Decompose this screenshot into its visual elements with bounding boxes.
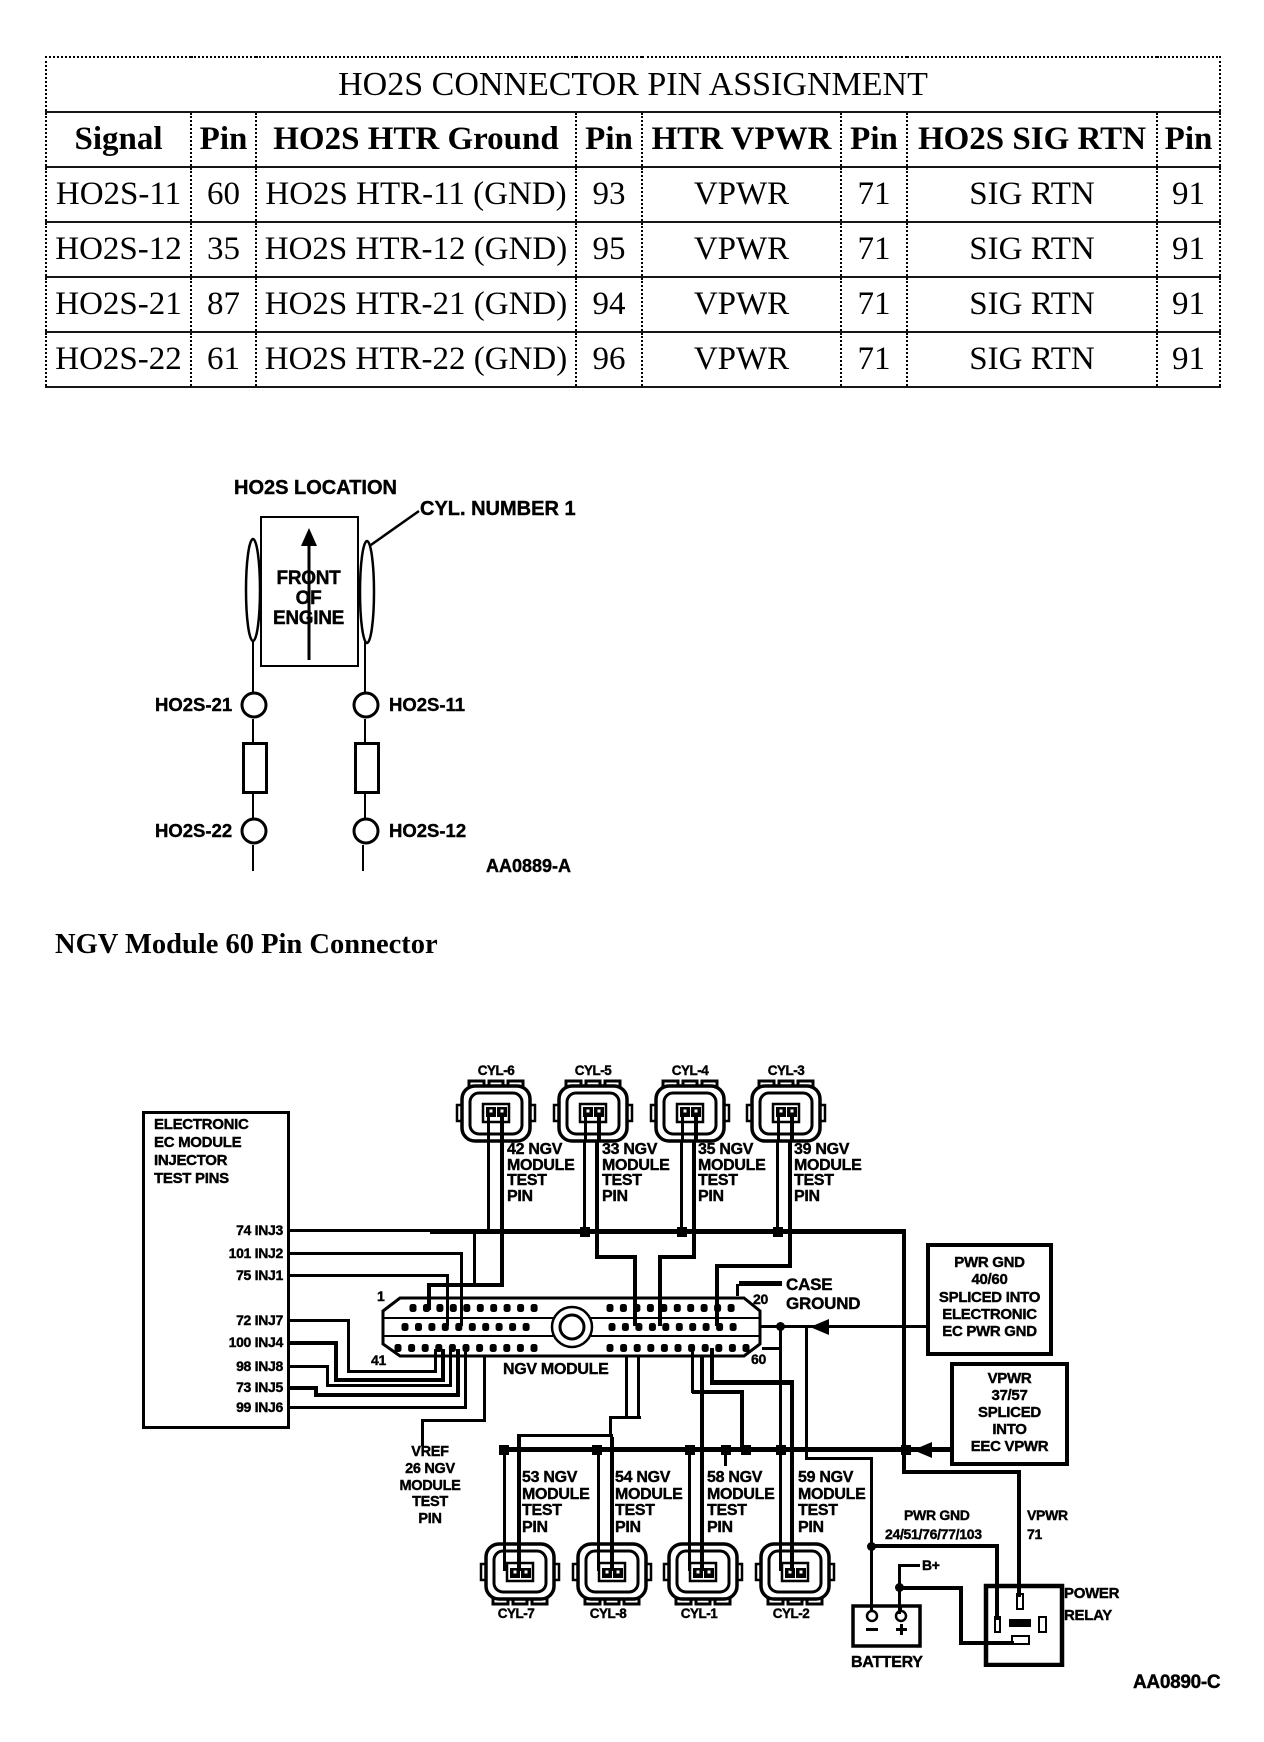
bottom connector CYL-7 [478,1541,562,1607]
wire INJ2 [290,1252,462,1255]
wire HO2S-22 tail [252,845,254,871]
pin label 100 INJ4 [153,1335,283,1351]
pin label 73 INJ5 [153,1380,283,1396]
connector CYL-7 label [481,1606,551,1622]
VPWR bus [502,1447,950,1452]
wire vpwr to relay [902,1470,1021,1474]
wire CYL-7 left pin [503,1452,506,1545]
wire B+ [898,1564,920,1567]
test pin label 39 [794,1142,862,1204]
connector CYL-8 label [573,1606,643,1622]
connector CYL-4 label [655,1063,725,1079]
junction dot node A [776,1322,785,1331]
pin label 74 INJ3 [153,1223,283,1239]
stub below bus [724,1450,727,1466]
wire CYL-1 test pin [700,1356,704,1545]
wire CYL-3 right pin [788,1142,792,1268]
wire INJ3 drop to module [473,1231,476,1287]
wire CYL-4 right pin [692,1142,696,1259]
wire CYL-3 left pin [776,1142,779,1232]
bus junction B1 [499,1445,509,1455]
arrow into VPWR box [913,1442,933,1458]
injector connector CYL-4 [648,1078,732,1144]
pin label 72 INJ7 [153,1313,283,1329]
wire CYL-5 left pin [583,1142,586,1232]
wire INJ5 [290,1386,318,1390]
wire INJ8 [290,1365,329,1368]
junction B+ [895,1583,904,1592]
connector body left [242,742,268,794]
wire CYL-6 left pin [487,1142,490,1233]
connector CYL-6 label [461,1063,531,1079]
junction J2 [677,1227,687,1237]
arrow into module (pwr gnd) [810,1319,830,1335]
junction J3 [773,1227,783,1237]
bus junction B3 [685,1445,695,1455]
wire 40/60 junction down [779,1331,782,1450]
EC module box U1 [142,1111,290,1429]
wire CYL-2 test pin [790,1380,794,1545]
wire pwr gnd from module middle row [805,1327,808,1460]
power relay label [1064,1583,1119,1627]
test pin label 42 [507,1142,575,1204]
VPWR 71 label [1027,1506,1068,1544]
battery label [851,1655,923,1671]
wire module pin to CYL-2 jog [710,1348,714,1384]
label 20 [753,1292,768,1308]
wire VREF [421,1419,424,1446]
engine box [260,516,359,667]
sensor HO2S-11 [351,690,381,720]
power relay K1 [981,1581,1065,1667]
bus junction B6 [776,1445,786,1455]
wire gnd to relay [870,1544,999,1548]
pin label 101 INJ2 [153,1246,283,1262]
test pin label 35 [698,1142,766,1204]
junction battery gnd [867,1542,876,1551]
wire HO2S-21 to connector body [252,719,254,743]
wire CYL-6 right pin [500,1142,504,1287]
right sensor oval [357,538,377,646]
wire VPWR drop [902,1229,906,1474]
connector CYL-3 label [751,1063,821,1079]
test pin label 58 [707,1470,775,1536]
pin 60 jog [779,1327,782,1350]
wire CYL-8 test pin [610,1437,614,1545]
B+ label [922,1558,940,1574]
wire INJ6 [290,1406,467,1409]
wire CYL-7 test pin [517,1434,521,1545]
bus junction B2 [592,1445,602,1455]
bus junction B7 [901,1445,911,1455]
injector connector CYL-5 [551,1078,635,1144]
sensor HO2S-22 [239,816,269,846]
wire CYL-2 left pin [779,1452,782,1545]
injector connector CYL-6 [454,1078,538,1144]
wire right bank to HO2S-11 [364,641,366,692]
wire CYL-4 left pin [680,1142,683,1232]
bus junction B4 [721,1445,731,1455]
connector CYL-5 label [558,1063,628,1079]
wire CYL-1 left pin [688,1452,691,1545]
wire CYL-8 left pin [597,1452,600,1545]
NGV module 60-pin connector body [375,1286,775,1370]
wire INJ3 bus horizontal [290,1229,504,1232]
pwr gnd label [904,1508,970,1524]
test pin label 54 [615,1470,683,1536]
label 41 [371,1353,386,1369]
test pin label 53 [522,1470,590,1536]
connector CYL-2 label [756,1606,826,1622]
test pin label 33 [602,1142,670,1204]
wire CYL-5 right pin [595,1142,599,1259]
bottom connector CYL-1 [661,1541,745,1607]
label 60 [751,1352,766,1368]
wire INJ4 [290,1341,338,1345]
cyl number 1 pointer [366,509,422,549]
bottom connector CYL-8 [570,1541,654,1607]
sensor HO2S-12 [351,816,381,846]
pin label 98 INJ8 [153,1359,283,1375]
case ground stub [739,1281,782,1286]
figure number [1133,1675,1220,1691]
wire battery+ to relay [898,1586,963,1590]
PWR GND splice box [926,1243,1053,1356]
front-of-engine arrow [297,528,321,664]
NGV module label [503,1362,608,1378]
injector connector CYL-3 [744,1078,828,1144]
connector body right [354,742,380,794]
wire INJ1 [290,1274,448,1277]
figure number AA0889-A [486,859,571,875]
label 1 [377,1289,385,1305]
pin label 75 INJ1 [153,1268,283,1284]
bottom connector CYL-2 [753,1541,837,1607]
pin label 99 INJ6 [153,1400,283,1416]
wire HO2S-12 tail [362,845,364,871]
junction J1 [580,1227,590,1237]
VPWR splice box [950,1362,1069,1466]
bus junction B5 [741,1445,751,1455]
wire connector to HO2S-12 [364,791,366,818]
left sensor oval [243,536,263,644]
wire INJ7 [290,1319,350,1322]
wire connector to HO2S-22 [252,791,254,818]
test pin label 59 [798,1470,866,1536]
connector CYL-1 label [664,1606,734,1622]
wire HO2S-11 to connector body [364,719,366,743]
sensor HO2S-21 [239,690,269,720]
wire module pin to bus jog [691,1348,694,1393]
VREF label [390,1444,470,1528]
wire left bank to HO2S-21 [252,640,254,692]
middle row line to PWR GND box [760,1325,926,1328]
battery G1 [846,1598,930,1654]
case ground label [786,1276,860,1313]
